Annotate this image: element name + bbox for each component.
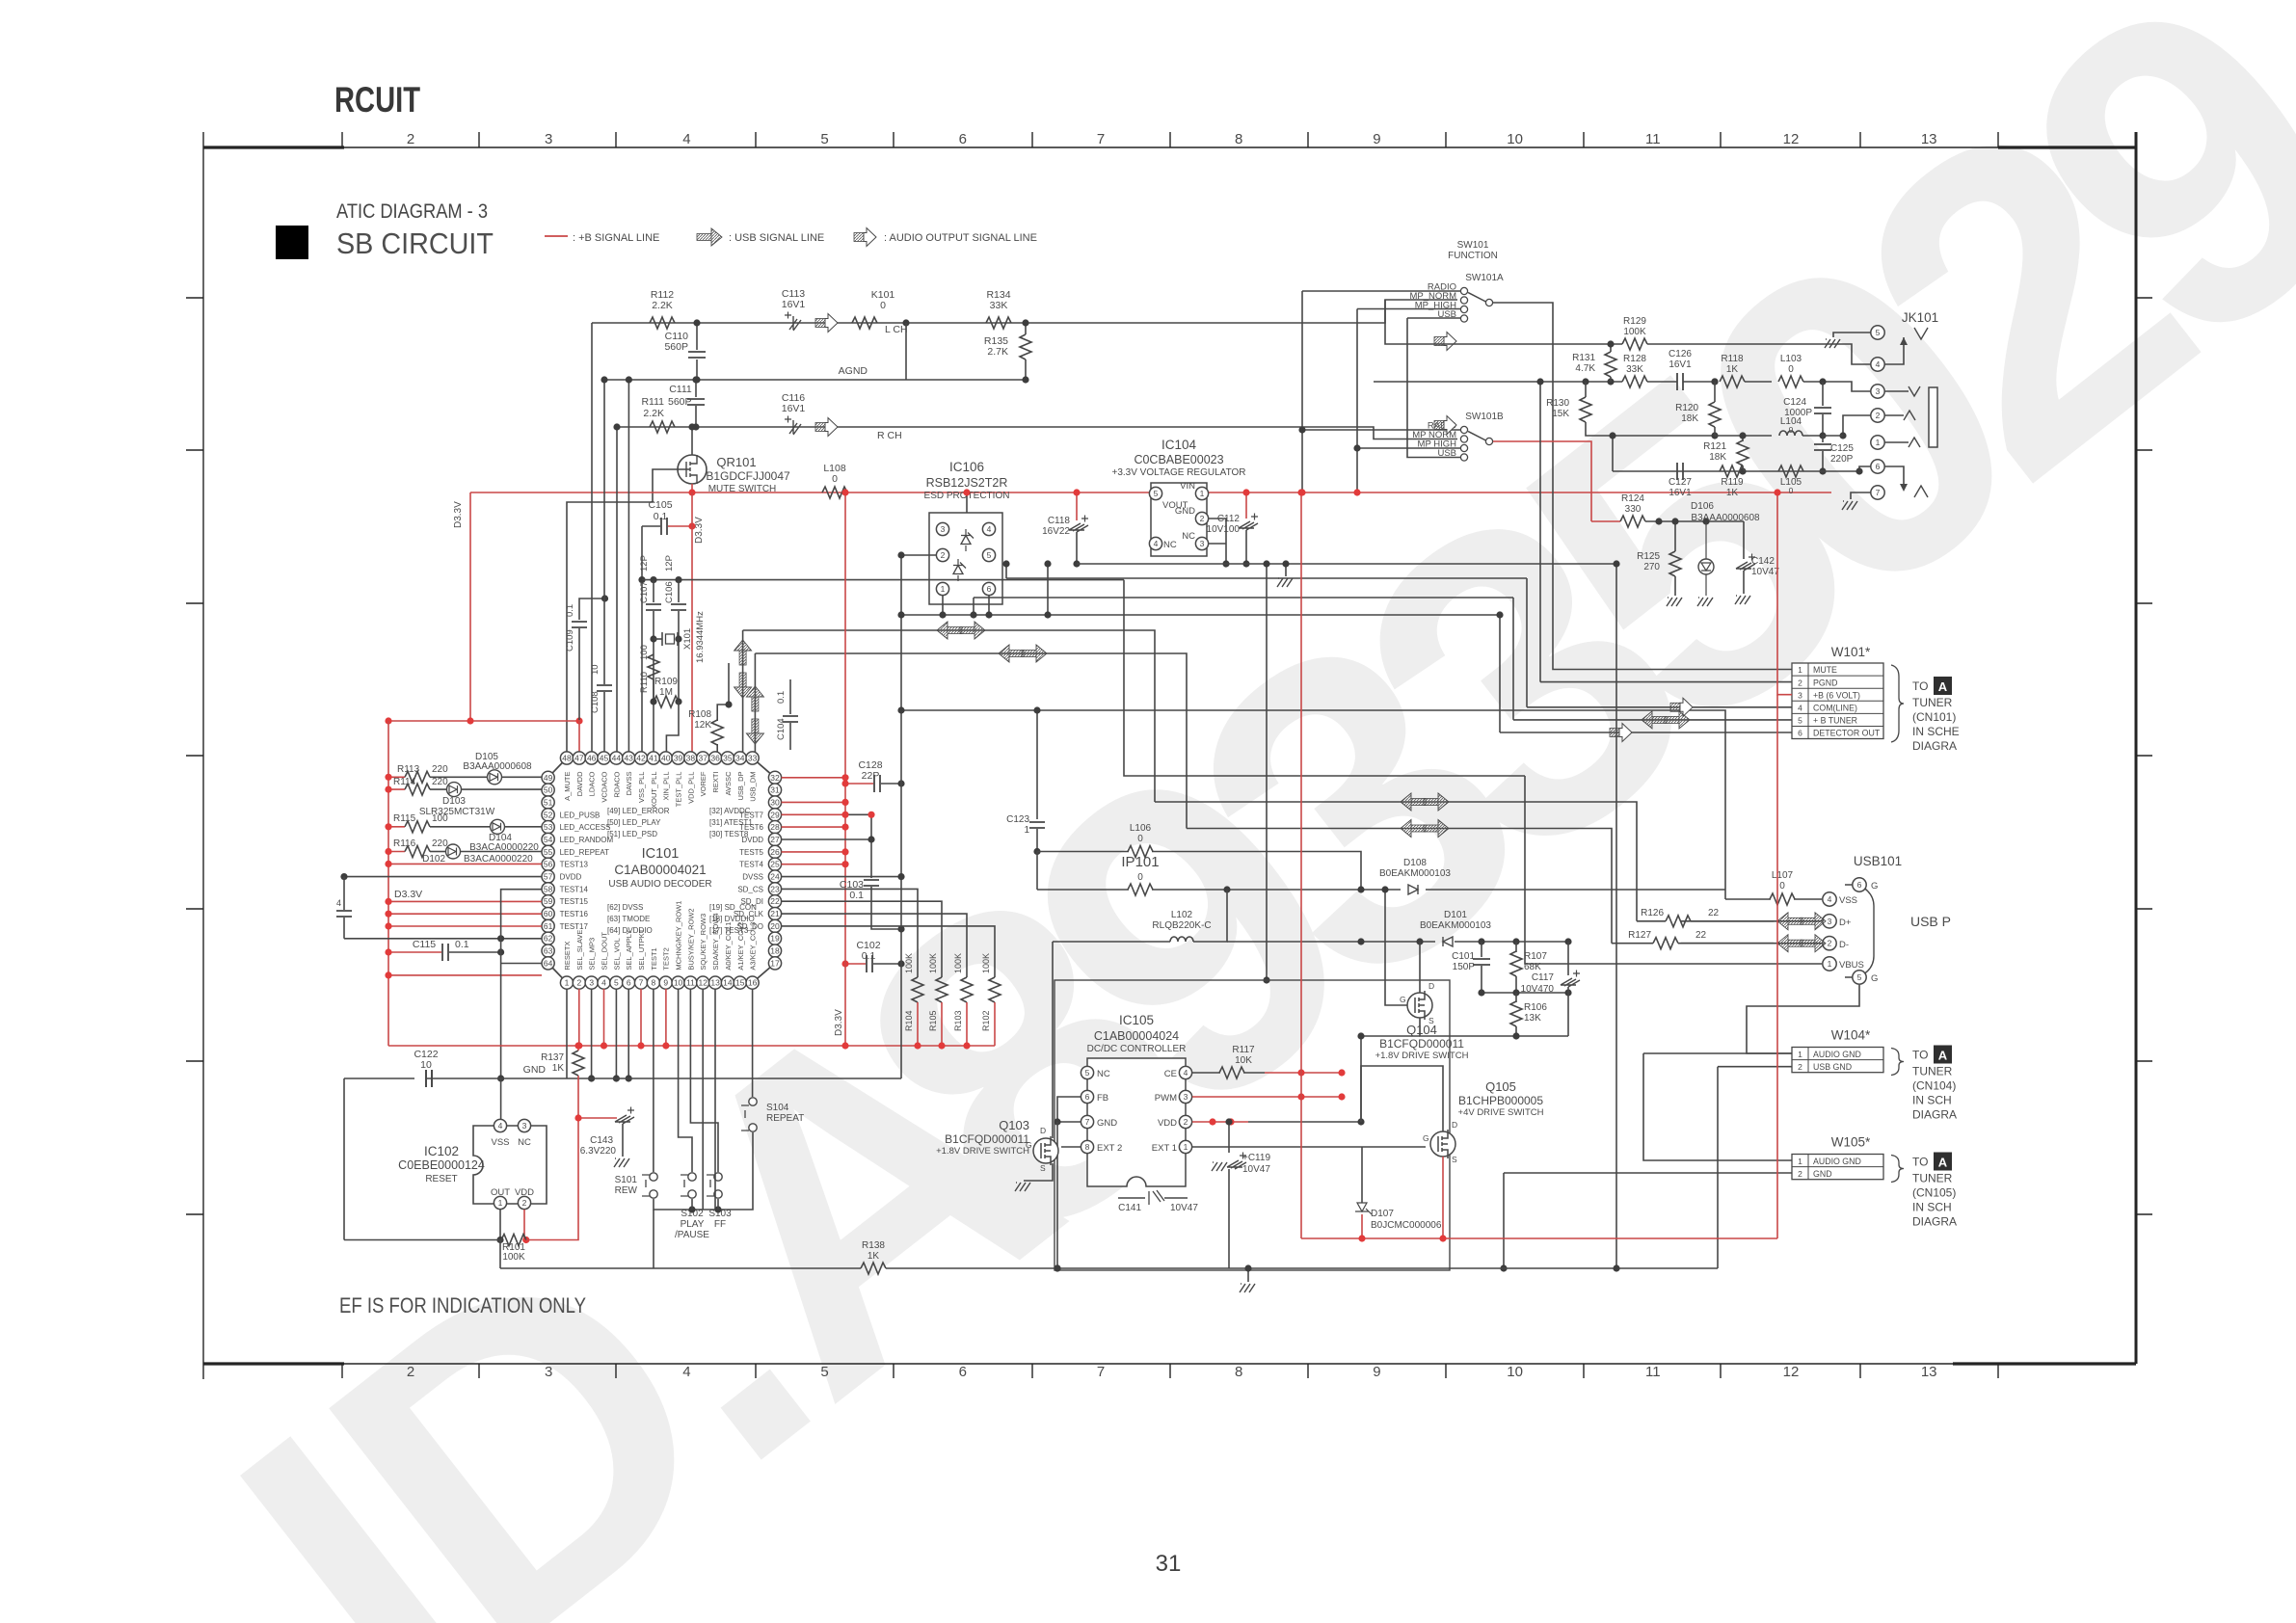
capacitor C122 <box>426 1070 432 1087</box>
svg-text:VCDACO: VCDACO <box>601 771 609 802</box>
svg-text:+3.3V VOLTAGE REGULATOR: +3.3V VOLTAGE REGULATOR <box>1111 467 1245 478</box>
ic IC101 right pins 32-17 <box>734 771 782 970</box>
svg-text:IC105: IC105 <box>1119 1013 1154 1027</box>
svg-text:D101: D101 <box>1444 910 1467 920</box>
wire pin8 to S101 <box>653 989 654 1172</box>
capacitor C117 <box>1567 942 1569 975</box>
block outline DC/DC section <box>1055 980 1450 1270</box>
svg-text:[50] LED_PLAY: [50] LED_PLAY <box>607 818 661 827</box>
svg-text:11: 11 <box>686 978 695 988</box>
svg-text:NC: NC <box>1163 540 1177 550</box>
resistor R116 <box>388 851 405 853</box>
svg-text:TEST4: TEST4 <box>739 861 763 869</box>
svg-text:C115: C115 <box>413 939 436 950</box>
black square marker <box>276 226 308 259</box>
svg-text:20: 20 <box>770 921 780 931</box>
svg-text:1: 1 <box>941 584 946 594</box>
svg-text:REW: REW <box>615 1185 638 1196</box>
wire AGND rail <box>604 379 1026 381</box>
svg-text:B3AAA0000608: B3AAA0000608 <box>463 761 532 772</box>
svg-text:TUNER: TUNER <box>1912 1172 1953 1185</box>
svg-text:SLR325MCT31W: SLR325MCT31W <box>419 807 495 817</box>
svg-text:SQL/KEY_ROW3: SQL/KEY_ROW3 <box>699 914 707 971</box>
svg-text:TEST6: TEST6 <box>739 823 763 832</box>
wire pin6 stub <box>627 989 629 1078</box>
ic IC106 internal zeners <box>961 533 974 545</box>
svg-text:0: 0 <box>832 473 838 485</box>
svg-text:REXTI: REXTI <box>711 772 720 793</box>
svg-text:15: 15 <box>735 978 745 988</box>
svg-text:SD_CS: SD_CS <box>737 885 763 893</box>
wire vertical to DCDC block <box>1266 564 1268 980</box>
resistor R117 <box>1192 1072 1220 1074</box>
svg-text:B3AAA0000608: B3AAA0000608 <box>1691 513 1760 523</box>
svg-text:C104: C104 <box>776 718 787 740</box>
svg-text:10: 10 <box>590 664 601 675</box>
svg-text:4: 4 <box>601 978 606 988</box>
svg-text:12: 12 <box>1783 1364 1800 1380</box>
svg-text:6: 6 <box>1857 880 1862 890</box>
svg-text:220: 220 <box>432 764 448 775</box>
svg-text:L103: L103 <box>1780 354 1802 364</box>
wire +B main rail <box>470 492 1151 493</box>
svg-text:2.2K: 2.2K <box>652 300 673 311</box>
svg-text:IC101: IC101 <box>642 846 680 862</box>
junction bottom line <box>1613 1264 1619 1271</box>
svg-text:+ B TUNER: + B TUNER <box>1813 716 1857 726</box>
capacitor C142 <box>1743 521 1745 559</box>
svg-text:AGND: AGND <box>839 365 868 377</box>
svg-text:TEST16: TEST16 <box>560 910 589 918</box>
svg-text:1: 1 <box>1828 959 1832 969</box>
svg-text:DAVSS: DAVSS <box>625 772 633 796</box>
capacitor C113 <box>789 316 801 331</box>
capacitor C141 <box>1118 1197 1145 1199</box>
svg-text:13: 13 <box>710 978 720 988</box>
svg-text:R CH: R CH <box>877 430 902 441</box>
svg-text:IN SCH: IN SCH <box>1912 1201 1952 1214</box>
wire SWB net to row4 <box>1612 436 1614 471</box>
wire JK101 pin7 ground <box>1851 492 1871 499</box>
svg-text:41: 41 <box>649 754 658 763</box>
svg-text:W101*: W101* <box>1831 645 1871 659</box>
wire pin32 red stub <box>782 777 845 779</box>
svg-text:7: 7 <box>1097 131 1105 147</box>
wire R101 to R137 red <box>526 1076 578 1240</box>
svg-text:C123: C123 <box>1006 814 1029 825</box>
svg-text:IC106: IC106 <box>949 460 984 474</box>
wire SW101B common red <box>1493 441 1591 521</box>
svg-text:3: 3 <box>522 1121 527 1131</box>
svg-text:C143: C143 <box>590 1135 613 1146</box>
svg-text:C124: C124 <box>1783 397 1806 408</box>
wire Q104 source line <box>1420 1018 1568 1036</box>
svg-text:DAVDD: DAVDD <box>575 771 584 796</box>
svg-text:3: 3 <box>1828 917 1832 926</box>
capacitor C128 <box>845 783 873 785</box>
svg-text:XIN_PLL: XIN_PLL <box>662 772 671 801</box>
svg-text:100K: 100K <box>953 953 963 973</box>
svg-text:16V1: 16V1 <box>1669 359 1692 370</box>
svg-text:TEST17: TEST17 <box>560 922 589 931</box>
svg-text:22P: 22P <box>862 770 880 782</box>
svg-text:W104*: W104* <box>1831 1028 1871 1043</box>
resistor R105 <box>936 977 948 1002</box>
svg-text:1: 1 <box>1798 1157 1802 1166</box>
svg-text:25: 25 <box>770 860 780 869</box>
svg-text:SW101B: SW101B <box>1465 412 1504 422</box>
wire W101 com line <box>1527 706 1792 708</box>
svg-text:9: 9 <box>663 978 668 988</box>
svg-text:L106: L106 <box>1130 823 1152 834</box>
capacitor C105 <box>642 525 660 527</box>
wire D3.3V rail <box>388 720 579 722</box>
svg-text:33: 33 <box>748 754 758 763</box>
resistor R108 <box>716 744 718 758</box>
svg-text:DVSS: DVSS <box>742 873 763 882</box>
capacitor C127 <box>1677 463 1683 480</box>
ic IC105 pins <box>1081 1066 1093 1078</box>
resistor R125 <box>1674 521 1676 551</box>
wire pin63 <box>501 963 542 965</box>
svg-text:R109: R109 <box>654 677 678 687</box>
svg-text:SEL_UTPKT: SEL_UTPKT <box>637 928 646 970</box>
wire net row4 <box>1613 470 1859 472</box>
svg-text:8: 8 <box>1085 1142 1090 1152</box>
wire pin16 to S104 <box>752 989 754 1097</box>
svg-text:42: 42 <box>636 754 646 763</box>
ic IC101 left pins 49-64 <box>542 771 614 970</box>
svg-text:FUNCTION: FUNCTION <box>1448 251 1498 261</box>
svg-text:100: 100 <box>432 813 448 824</box>
svg-text:R108: R108 <box>688 709 711 720</box>
svg-text:34: 34 <box>735 754 745 763</box>
svg-text:2: 2 <box>1876 411 1881 420</box>
resistor R128 <box>1622 376 1647 387</box>
resistor R115 <box>388 826 405 828</box>
svg-text:DC/DC CONTROLLER: DC/DC CONTROLLER <box>1087 1044 1187 1054</box>
svg-text:+4V DRIVE SWITCH: +4V DRIVE SWITCH <box>1458 1107 1544 1118</box>
wire IC104 pin3 stub <box>1209 543 1226 545</box>
svg-text:D: D <box>1040 1126 1046 1135</box>
svg-text:CE: CE <box>1164 1069 1177 1079</box>
svg-text:100K: 100K <box>928 953 938 973</box>
crystal X101 <box>662 632 678 646</box>
svg-text:12P: 12P <box>639 555 650 572</box>
svg-text:A: A <box>1938 1156 1948 1170</box>
svg-text:VIN: VIN <box>1180 481 1195 492</box>
capacitor C125 <box>1822 436 1824 442</box>
wire Q103 drain to L102 <box>1052 942 1054 1138</box>
svg-text:2: 2 <box>1798 1062 1802 1072</box>
svg-text:6: 6 <box>1876 462 1881 471</box>
resistor R137 <box>573 1051 584 1076</box>
svg-text:12: 12 <box>1783 131 1800 147</box>
ic IC102 pins <box>494 1119 506 1131</box>
wire pin42 column <box>641 526 643 758</box>
svg-text:B1GDCFJJ0047: B1GDCFJJ0047 <box>706 469 790 483</box>
wire pin27 stub <box>782 838 871 840</box>
svg-text:220: 220 <box>432 838 448 849</box>
wire USB101 pin5 to W104 <box>1747 985 1859 1053</box>
wire IC106 pin2 left <box>901 554 936 556</box>
ic IC101 body <box>548 758 775 983</box>
svg-text:C108: C108 <box>590 691 601 713</box>
svg-text:[62] DVSS: [62] DVSS <box>607 903 643 912</box>
wire Q105 drain <box>1361 1066 1443 1131</box>
transistor Q103 <box>1033 1138 1058 1163</box>
wire USB_DP route <box>743 630 1155 802</box>
wire IC102 VSS to GND <box>500 1078 502 1119</box>
svg-text:D3.3V: D3.3V <box>694 517 705 544</box>
svg-text:VDD: VDD <box>1158 1118 1177 1129</box>
svg-text:R107: R107 <box>1524 951 1547 962</box>
svg-text:S104: S104 <box>766 1103 789 1113</box>
ic IC101 internal pin list <box>607 807 757 935</box>
svg-text:USB P: USB P <box>1910 914 1951 929</box>
svg-text:PGND: PGND <box>1813 678 1837 687</box>
wire IC102 VDD red <box>523 1210 525 1240</box>
svg-text:560P: 560P <box>664 341 688 353</box>
wire SWA net to network <box>1385 300 1622 344</box>
svg-text:MUTE: MUTE <box>1813 665 1837 675</box>
wire GND left loop <box>343 1078 345 1240</box>
svg-text:1K: 1K <box>1726 488 1739 498</box>
wire QR101 source to +B rail <box>691 484 693 492</box>
svg-text:6: 6 <box>959 1364 967 1380</box>
svg-text:32: 32 <box>770 773 780 783</box>
svg-text:G: G <box>1423 1133 1429 1143</box>
svg-text:TO: TO <box>1912 1049 1928 1062</box>
svg-text:4: 4 <box>682 131 690 147</box>
svg-text:7: 7 <box>1876 488 1881 497</box>
svg-text:47: 47 <box>574 754 584 763</box>
svg-text:4: 4 <box>336 898 341 908</box>
wire Q104 line to left <box>1361 1036 1420 1122</box>
wire Q103 source <box>1024 1163 1053 1181</box>
svg-text:B0EAKM000103: B0EAKM000103 <box>1379 868 1451 879</box>
svg-text:D+: D+ <box>1839 918 1852 928</box>
svg-text:7: 7 <box>639 978 644 988</box>
svg-text:2.2K: 2.2K <box>643 408 664 419</box>
svg-text:24: 24 <box>770 872 780 882</box>
svg-text:0.1: 0.1 <box>776 691 787 704</box>
svg-text:330: 330 <box>1625 504 1642 515</box>
svg-text:: AUDIO OUTPUT SIGNAL LINE: : AUDIO OUTPUT SIGNAL LINE <box>884 232 1037 244</box>
svg-text:S: S <box>1452 1155 1457 1164</box>
capacitor C114 <box>343 877 345 910</box>
svg-text:8: 8 <box>1235 131 1242 147</box>
capacitor C111 <box>695 380 697 397</box>
ic IC104 pins <box>1149 487 1161 499</box>
svg-text:68K: 68K <box>1524 962 1541 972</box>
svg-text:R114: R114 <box>393 777 416 787</box>
wire red vertical mid <box>1300 492 1302 1238</box>
svg-text:6: 6 <box>1798 729 1802 738</box>
svg-text:29: 29 <box>770 810 780 819</box>
svg-text:D106: D106 <box>1691 501 1714 512</box>
svg-text:43: 43 <box>624 754 633 763</box>
svg-text:2: 2 <box>941 550 946 560</box>
wire pin3 stub <box>591 989 593 1078</box>
svg-text:58: 58 <box>544 884 553 893</box>
svg-text:TEST15: TEST15 <box>560 897 589 906</box>
svg-text:46: 46 <box>587 754 597 763</box>
wire red vertical right <box>1776 695 1778 1238</box>
svg-text:6.3V220: 6.3V220 <box>580 1146 617 1157</box>
jack contact symbols <box>1914 328 1928 339</box>
svg-text:10V47: 10V47 <box>1242 1164 1270 1175</box>
wire net row3 <box>1613 435 1715 437</box>
svg-text:1: 1 <box>1184 1142 1188 1152</box>
svg-text:D: D <box>1428 981 1434 991</box>
svg-text:S: S <box>1040 1163 1046 1173</box>
wire pin25 red stub <box>782 864 845 865</box>
svg-text:SDA/KEY_ROW4: SDA/KEY_ROW4 <box>711 913 720 970</box>
diode D106 LED <box>1698 559 1714 574</box>
svg-text:18K: 18K <box>1709 452 1726 463</box>
svg-text:LED_ACCESS: LED_ACCESS <box>560 823 611 832</box>
svg-text:R111: R111 <box>641 396 664 408</box>
svg-text:6: 6 <box>959 131 967 147</box>
wire L CH rail <box>592 300 1457 323</box>
svg-text:(CN101): (CN101) <box>1912 710 1956 724</box>
ic IC101 top pins 48-33 <box>560 752 759 809</box>
svg-text:FF: FF <box>714 1219 726 1230</box>
svg-text:53: 53 <box>544 822 553 832</box>
svg-text:64: 64 <box>544 958 553 968</box>
svg-text:RCUIT: RCUIT <box>334 80 420 120</box>
svg-text:SEL_SLAVE: SEL_SLAVE <box>575 930 584 971</box>
wire R CH rail <box>617 427 1457 439</box>
wire IC105 EXT2 to Q103 gate <box>1061 1146 1081 1148</box>
svg-text:VSS: VSS <box>1839 895 1857 906</box>
svg-text:50: 50 <box>544 785 553 795</box>
svg-text:BUSY/KEY_ROW2: BUSY/KEY_ROW2 <box>686 908 695 970</box>
svg-text:36: 36 <box>710 754 720 763</box>
svg-text:Q105: Q105 <box>1485 1079 1516 1094</box>
wire L102 line <box>1053 941 1170 943</box>
svg-text:USB101: USB101 <box>1854 854 1902 868</box>
wire IC102 OUT down <box>499 1210 501 1240</box>
wire common rail to ground line <box>653 1210 654 1268</box>
svg-text:9: 9 <box>1373 1364 1380 1380</box>
svg-text:ATIC DIAGRAM - 3: ATIC DIAGRAM - 3 <box>336 200 488 223</box>
svg-text:NC: NC <box>518 1137 531 1148</box>
resistor R121 <box>1742 436 1744 441</box>
wire TEST16 pin60 <box>388 913 542 915</box>
wire VDD_PLL red pin38 <box>691 492 693 758</box>
connector W105 <box>1792 1155 1883 1180</box>
svg-text:13: 13 <box>1921 131 1937 147</box>
resistor R109 <box>653 679 654 702</box>
wire Q105 source red <box>1442 1157 1444 1238</box>
wire SW101A common to W101 mute <box>1493 303 1792 670</box>
wire pin1 stub <box>566 989 568 1078</box>
wire SD_DI to R105 <box>782 901 942 977</box>
svg-text:22: 22 <box>1695 930 1707 941</box>
svg-text:VOREF: VOREF <box>699 771 707 796</box>
svg-text:R124: R124 <box>1621 493 1644 504</box>
svg-text:12P: 12P <box>664 555 675 572</box>
svg-text:49: 49 <box>544 773 553 783</box>
svg-text:2: 2 <box>407 131 414 147</box>
svg-text:5: 5 <box>820 131 828 147</box>
ground C143 <box>622 1124 624 1157</box>
capacitor C102 <box>845 963 866 965</box>
svg-text:TEST7: TEST7 <box>739 811 763 819</box>
svg-text:C0EBE0000124: C0EBE0000124 <box>398 1158 485 1172</box>
wire pin7 red stub <box>640 989 642 1046</box>
wire IP101 line right <box>1152 889 1401 891</box>
svg-text:G: G <box>1026 1140 1032 1150</box>
svg-text:QR101: QR101 <box>716 455 756 469</box>
svg-text:0.1: 0.1 <box>565 604 575 617</box>
svg-text:TEST13: TEST13 <box>560 861 589 869</box>
wire black vertical C128-GND <box>900 555 902 1078</box>
svg-text:SEL_VOL: SEL_VOL <box>612 938 621 970</box>
wire red vertical D3.3V mid <box>844 492 846 1046</box>
svg-text:DIAGRA: DIAGRA <box>1912 1215 1957 1229</box>
svg-text:R128: R128 <box>1623 354 1646 364</box>
svg-text:0.1: 0.1 <box>849 890 864 901</box>
svg-text:C127: C127 <box>1669 477 1692 488</box>
svg-text:DVDD: DVDD <box>741 836 763 844</box>
svg-text:14: 14 <box>723 978 733 988</box>
svg-text:18K: 18K <box>1681 413 1698 424</box>
wire QR101 gate to pin48 <box>567 469 679 758</box>
svg-text:48: 48 <box>562 754 572 763</box>
svg-text:220P: 220P <box>1830 454 1854 465</box>
svg-text:USB_DP: USB_DP <box>736 772 745 801</box>
svg-text:5: 5 <box>1876 328 1881 337</box>
ic IC104 body <box>1151 483 1207 556</box>
svg-text:R119: R119 <box>1721 477 1744 488</box>
wire IC106 top to rail <box>966 492 968 513</box>
wire SW101A usb feed <box>1407 317 1460 319</box>
diode D103 <box>447 783 462 797</box>
svg-text:1: 1 <box>1798 665 1802 675</box>
junction R113 <box>385 774 391 781</box>
svg-text:VDD: VDD <box>515 1187 534 1198</box>
svg-text:0.1: 0.1 <box>455 939 469 950</box>
svg-text:IC102: IC102 <box>424 1144 459 1158</box>
svg-text:0.1: 0.1 <box>654 511 668 522</box>
svg-text:/PAUSE: /PAUSE <box>675 1230 709 1240</box>
svg-text:100K: 100K <box>981 953 991 973</box>
svg-text:10: 10 <box>1507 131 1523 147</box>
wire pin10 to S102 <box>679 989 692 1172</box>
svg-text:C125: C125 <box>1830 443 1854 454</box>
svg-text:33K: 33K <box>1626 364 1643 375</box>
diode D102 <box>446 844 461 859</box>
svg-text:: +B SIGNAL LINE: : +B SIGNAL LINE <box>573 232 659 244</box>
switch SW101B <box>1460 426 1467 433</box>
svg-text:LED_RANDOM: LED_RANDOM <box>560 836 614 844</box>
capacitor C119 <box>1228 1122 1230 1153</box>
wire W101 pgnd <box>1540 681 1792 683</box>
capacitor C126 <box>1677 373 1683 390</box>
svg-text:7: 7 <box>1097 1364 1105 1380</box>
wire pin29 red stub <box>782 813 845 815</box>
wire SW101A mp-high feed <box>1357 308 1460 310</box>
svg-text:16V1: 16V1 <box>782 299 806 310</box>
svg-text:59: 59 <box>544 896 553 906</box>
svg-text:57: 57 <box>544 872 553 882</box>
svg-text:B1CFQD000011: B1CFQD000011 <box>1379 1037 1464 1051</box>
svg-text:LDACO: LDACO <box>588 771 597 796</box>
capacitor C143 <box>578 1117 617 1119</box>
